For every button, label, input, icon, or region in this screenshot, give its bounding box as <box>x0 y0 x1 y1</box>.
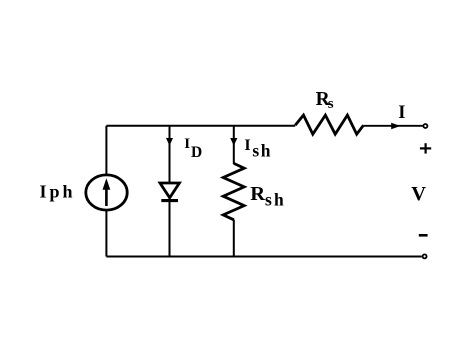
current source Iph <box>86 175 127 210</box>
terminal + (open circle) <box>423 124 427 128</box>
terminal - (open circle) <box>423 254 427 258</box>
label + <box>420 143 431 153</box>
wire left vertical lower <box>105 211 107 257</box>
current arrow ID <box>166 138 173 146</box>
label minus <box>419 234 428 237</box>
svg-text:Iph: Iph <box>40 182 76 202</box>
wire bottom rail <box>106 256 421 258</box>
svg-text:I: I <box>398 103 405 123</box>
svg-text:I: I <box>184 136 190 152</box>
wire left vertical upper <box>105 126 107 175</box>
wire diode branch <box>169 126 171 257</box>
wire Rsh branch lower <box>233 220 235 257</box>
current arrow Ish <box>230 138 237 146</box>
wire Rs to positive terminal <box>363 125 422 127</box>
svg-text:I: I <box>244 137 250 154</box>
diode D <box>160 183 179 201</box>
svg-text:D: D <box>191 144 202 161</box>
wire Rsh branch upper <box>233 126 235 164</box>
wire top rail from left corner to Rs <box>106 125 295 127</box>
svg-text:R: R <box>250 183 265 205</box>
resistor Rs <box>295 115 363 134</box>
svg-text:sh: sh <box>252 141 272 161</box>
current arrow I <box>391 123 400 130</box>
svg-text:V: V <box>411 183 426 205</box>
svg-text:s: s <box>328 96 334 112</box>
resistor Rsh <box>223 163 244 219</box>
svg-text:sh: sh <box>265 190 286 210</box>
